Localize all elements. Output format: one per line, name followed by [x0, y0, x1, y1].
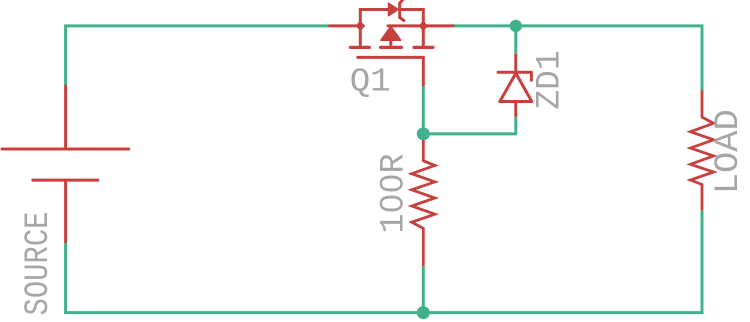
transistor Q1 body diode loop left — [360, 10, 388, 26]
transistor Q1 body diode loop right — [400, 10, 424, 26]
transistor Q1 channel bar body — [381, 46, 402, 49]
label 100R zero slash patch 2 — [387, 200, 397, 207]
zener diode ZD1 cathode bar — [498, 72, 531, 80]
zener diode ZD1 cathode pin — [514, 54, 517, 72]
battery V1 bottom pin — [64, 180, 67, 241]
transistor Q1 body diode zener flag bottom — [400, 18, 404, 21]
transistor Q1 channel bar source — [350, 46, 369, 49]
transistor Q1 body diode zener flag top — [400, 0, 404, 3]
wire battery negative to bottom rail — [66, 210, 702, 312]
battery V1 top pin — [64, 86, 67, 149]
battery V1 long plate — [2, 148, 129, 151]
zener diode ZD1 triangle — [500, 73, 532, 101]
wire top rail left (source+ to Q1) — [66, 26, 330, 86]
transistor Q1 channel bar drain — [414, 46, 433, 49]
svg-text:ZD1: ZD1 — [532, 51, 570, 110]
wire gate drop to node — [422, 85, 425, 140]
wire node to zener anode — [423, 117, 516, 134]
resistor 100R — [412, 140, 435, 266]
battery V1 short plate — [33, 179, 98, 182]
resistor LOAD — [690, 90, 713, 210]
transistor Q1 body diode triangle — [389, 3, 399, 16]
junction node at zener cathode — [510, 20, 522, 32]
transistor Q1 drain rail with body tie — [388, 24, 453, 27]
svg-text:100R: 100R — [376, 154, 414, 234]
transistor Q1 body diode cathode bar — [398, 3, 401, 17]
wire zener cathode to top rail — [514, 26, 517, 54]
wire 100R bottom to rail — [422, 266, 425, 313]
transistor Q1 source stub — [359, 28, 362, 46]
zener diode ZD1 anode pin — [514, 102, 517, 117]
transistor Q1 source rail stub — [330, 24, 361, 27]
transistor Q1 body arrow — [381, 26, 401, 40]
transistor Q1 source pin diamond — [355, 21, 365, 31]
transistor Q1 gate line — [358, 57, 424, 85]
label 100R zero slash patch 1 — [387, 180, 397, 187]
svg-text:LOAD: LOAD — [710, 109, 748, 194]
junction node 100R at bottom rail — [417, 306, 430, 319]
transistor Q1 body stub — [389, 40, 392, 46]
transistor Q1 drain stub — [422, 28, 425, 46]
wire top rail right (Q1 to load) — [453, 26, 702, 90]
junction node gate/zener/100R — [417, 127, 430, 140]
svg-text:SOURCE: SOURCE — [20, 212, 58, 316]
transistor Q1 drain pin diamond — [418, 21, 428, 31]
svg-text:Q1: Q1 — [350, 63, 391, 100]
